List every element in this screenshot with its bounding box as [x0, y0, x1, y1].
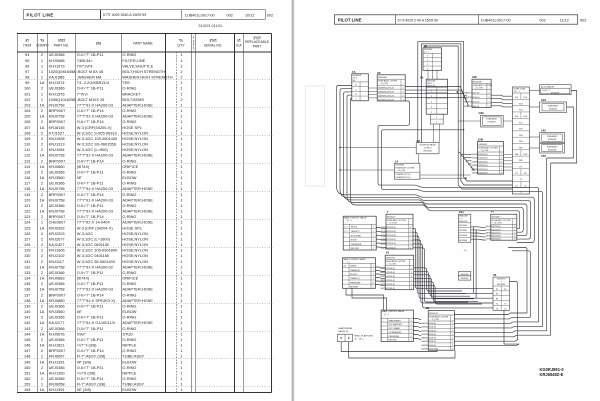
svg-text:14B: 14B — [478, 111, 484, 115]
svg-text:§¶: §¶ — [237, 39, 241, 43]
main control valve 1 (4 spool) — [343, 216, 376, 250]
svg-text:2: 2 — [41, 136, 43, 141]
wires hose 14 — [340, 169, 394, 171]
svg-text:110: 110 — [24, 142, 31, 147]
wire tube102 right riser — [547, 107, 574, 331]
svg-text:1: 1 — [41, 58, 43, 63]
svg-text:5ˈlˈ9 4029 3ˈ40-A 15/09 59: 5ˈlˈ9 4029 3ˈ40-A 15/09 59 — [398, 18, 438, 22]
svg-text:HOSE SPL: HOSE SPL — [122, 125, 142, 130]
svg-text:KRJ6058: KRJ6058 — [548, 139, 557, 141]
svg-text:§¶§¶: §¶§¶ — [209, 39, 216, 43]
svg-text:KRJ6076: KRJ6076 — [386, 258, 395, 260]
svg-text:UEJ0366: UEJ0366 — [49, 181, 65, 186]
svg-text:1: 1 — [180, 209, 182, 214]
svg-text:1: 1 — [41, 354, 43, 359]
svg-text:KHJ1391: KHJ1391 — [49, 359, 65, 364]
svg-text:117: 117 — [24, 181, 30, 186]
svg-text:Pb9: Pb9 — [519, 160, 523, 162]
svg-text:1: 1 — [373, 274, 374, 276]
svg-text:152: 152 — [24, 376, 31, 381]
svg-text:1: 1 — [180, 331, 182, 336]
svg-text:Pa6: Pa6 — [515, 116, 519, 118]
svg-text:2: 2 — [180, 75, 182, 80]
svg-text:1: 1 — [373, 270, 374, 272]
tube assy box 145 — [540, 129, 565, 143]
svg-text:ADAPTER;HOSE: ADAPTER;HOSE — [122, 186, 153, 191]
svg-text:W-3;1/2C: W-3;1/2C — [77, 231, 94, 236]
svg-text:1: 1 — [411, 332, 412, 334]
svg-text:VALVE 10: VALVE 10 — [338, 330, 349, 333]
svg-text:77"7"9;t-X 14-0404: 77"7"9;t-X 14-0404 — [77, 220, 111, 225]
svg-text:KRJ2034: KRJ2034 — [459, 240, 467, 242]
svg-text:12B: 12B — [478, 138, 484, 142]
hose group 12B box — [472, 138, 504, 175]
svg-text:T2: T2 — [504, 308, 506, 310]
svg-text:2: 2 — [41, 108, 43, 113]
svg-text:ˈ(2ˈˈˈ18ˈˈ)-ˈˈ: ˈ(2ˈˈˈ18ˈˈ)-ˈˈ — [354, 337, 365, 340]
svg-text:ˈˈˈˈˈ(ˈˈ): ˈˈˈˈˈ(ˈˈ) — [344, 261, 350, 264]
wires MCV2 to MCV3 — [346, 288, 384, 310]
wires into hose 12B — [458, 152, 471, 155]
svg-text:1: 1 — [373, 231, 374, 233]
svg-text:O-RING: O-RING — [122, 303, 136, 308]
svg-text:BRACKET: BRACKET — [459, 215, 469, 218]
svg-text:1: 1 — [180, 309, 182, 314]
hose group 9B box — [421, 306, 454, 350]
svg-text:2: 2 — [41, 192, 43, 197]
svg-text:O-Il>'7" 1B-P14: O-Il>'7" 1B-P14 — [77, 348, 105, 353]
svg-text:§: § — [193, 39, 195, 43]
svg-text:ˈ-ˈˈ2(ˈ) C/W: ˈ-ˈˈ2(ˈ) C/W — [479, 149, 489, 152]
svg-text:134: 134 — [24, 276, 31, 281]
wire loop outer around box 98 — [418, 42, 513, 181]
svg-text:113: 113 — [24, 158, 30, 163]
svg-text:106: 106 — [24, 119, 31, 124]
svg-text:11/12: 11/12 — [560, 19, 569, 23]
svg-text:154: 154 — [24, 387, 31, 392]
svg-text:1: 1 — [452, 323, 453, 325]
svg-text:§¶§¶: §¶§¶ — [58, 39, 65, 43]
wires box 98 to box 96 — [427, 70, 429, 79]
svg-text:4: 4 — [431, 107, 432, 109]
svg-text:O-Il>'7" 1B-P14: O-Il>'7" 1B-P14 — [77, 108, 105, 113]
svg-text:94: 94 — [25, 52, 30, 57]
svg-text:ˈˈ: ˈˈ — [382, 331, 384, 334]
svg-text:4: 4 — [411, 320, 412, 322]
svg-text:TUBE ASSY: TUBE ASSY — [546, 135, 558, 138]
svg-text:1: 1 — [180, 114, 182, 119]
parts table rows 94-154 — [24, 52, 183, 392]
svg-text:TRAVEL(R): TRAVEL(R) — [350, 269, 360, 272]
svg-text:1: 1 — [180, 303, 182, 308]
svg-text:Illl" (3/8): Illl" (3/8) — [77, 359, 92, 364]
svg-text:KHJ1974: KHJ1974 — [551, 93, 560, 95]
svg-text:129: 129 — [24, 248, 31, 253]
svg-text:145: 145 — [541, 129, 546, 133]
svg-text:O-RING: O-RING — [122, 315, 136, 320]
svg-text:126: 126 — [24, 231, 31, 236]
svg-text:51(KRJ2203-X): 51(KRJ2203-X) — [421, 349, 436, 351]
svg-text:1: 1 — [41, 75, 43, 80]
svg-text:47(KRJ2203-X): 47(KRJ2203-X) — [380, 276, 395, 278]
svg-text:STUD: STUD — [122, 331, 133, 336]
svg-text:7ˈ7ˈˈ: 7ˈ7ˈˈ — [459, 217, 464, 220]
svg-text:1: 1 — [452, 345, 453, 347]
svg-text:§¶§¶: §¶§¶ — [253, 36, 260, 40]
svg-text:KRJ2677: KRJ2677 — [49, 237, 65, 242]
svg-text:2: 2 — [41, 303, 43, 308]
svg-text:ˈ-ˈ ˈˈˈ: ˈ-ˈ ˈˈˈ — [344, 222, 349, 225]
svg-text:2: 2 — [41, 52, 43, 57]
svg-text:1: 1 — [180, 108, 182, 113]
svg-text:TEE: TEE — [122, 80, 130, 85]
svg-text:121: 121 — [24, 203, 31, 208]
svg-text:2: 2 — [41, 214, 43, 219]
svg-text:PILOT LINE: PILOT LINE — [338, 18, 362, 23]
svg-text:1: 1 — [180, 248, 182, 253]
svg-text:§: § — [193, 46, 195, 50]
svg-text:ˈˈ-ˈ: ˈˈ-ˈ — [382, 319, 385, 322]
svg-text:2: 2 — [41, 170, 43, 175]
svg-text:1: 1 — [180, 147, 182, 152]
svg-text:KRJ8145: KRJ8145 — [49, 125, 65, 130]
svg-text:1: 1 — [180, 170, 182, 175]
svg-text:W-3;1/2C 0601150: W-3;1/2C 0601150 — [77, 242, 110, 247]
wire bundle left risers to hose 47 — [337, 86, 535, 243]
svg-text:1: 1 — [41, 382, 43, 387]
hose group 10F box — [464, 75, 493, 108]
svg-text:RETURN: RETURN — [389, 340, 398, 342]
svg-text:1: 1 — [41, 91, 43, 96]
svg-text:2: 2 — [41, 248, 43, 253]
svg-text:1020Q0816458: 1020Q0816458 — [49, 69, 76, 74]
svg-text:ˈ-ˈˈ2(ˈ) C/W: ˈ-ˈˈ2(ˈ) C/W — [387, 222, 397, 225]
svg-text:ˈˈˈlˈˈˈ: ˈˈˈlˈˈˈ — [499, 280, 504, 283]
svg-text:ˈˈˈ: ˈˈˈ — [344, 277, 346, 280]
svg-text:1A: 1A — [40, 320, 45, 325]
svg-text:135: 135 — [24, 281, 31, 286]
svg-text:1: 1 — [355, 89, 356, 91]
svg-text:MAIN CONTROL VALVE: MAIN CONTROL VALVE — [344, 216, 367, 219]
svg-text:68(KRJ2203-X): 68(KRJ2203-X) — [486, 232, 501, 234]
svg-text:1A: 1A — [40, 209, 45, 214]
svg-text:ˈˈˈ: ˈˈˈ — [344, 273, 346, 276]
valve block 96 — [420, 75, 448, 114]
svg-text:DJB401L0017-00: DJB401L0017-00 — [185, 13, 215, 17]
svg-text:2: 2 — [41, 86, 43, 91]
svg-text:KRJ3560: KRJ3560 — [49, 309, 66, 314]
svg-text:ROT/CRWD: ROT/CRWD — [351, 235, 362, 237]
svg-text:148: 148 — [24, 354, 31, 359]
svg-text:ADAPTER;HOSE: ADAPTER;HOSE — [122, 298, 153, 303]
wire loop middle around box 98 — [421, 44, 512, 185]
svg-text:2: 2 — [41, 253, 43, 258]
svg-text:KHJ1821: KHJ1821 — [49, 343, 65, 348]
svg-text:HOSE;NYLON: HOSE;NYLON — [122, 142, 148, 147]
svg-text:SWING: SWING — [350, 266, 357, 268]
svg-text:TUBE ASSY: TUBE ASSY — [486, 118, 498, 121]
svg-text:1: 1 — [180, 242, 182, 247]
svg-text:KRJ6062: KRJ6062 — [479, 144, 488, 146]
svg-text:UEJ0366: UEJ0366 — [49, 337, 65, 342]
svg-text:Q'TY: Q'TY — [177, 43, 185, 47]
svg-text:HOSE SPL: HOSE SPL — [122, 225, 142, 230]
svg-text:10/12: 10/12 — [245, 13, 255, 17]
svg-text:O-Il>'7" 1B-P11: O-Il>'7" 1B-P11 — [77, 270, 104, 275]
svg-text:104: 104 — [24, 108, 31, 113]
svg-text:ELBOW: ELBOW — [122, 359, 136, 364]
svg-text:95: 95 — [25, 58, 29, 63]
svg-text:2: 2 — [41, 231, 43, 236]
svg-text:REPLACEABLE: REPLACEABLE — [245, 40, 270, 44]
svg-text:KRJ0880: KRJ0880 — [49, 298, 66, 303]
svg-text:BRP0007: BRP0007 — [49, 214, 66, 219]
svg-text:2: 2 — [41, 326, 43, 331]
svg-text:1036Q1016258: 1036Q1016258 — [49, 97, 76, 102]
svg-text:W-3;1/2C SS-0601556: W-3;1/2C SS-0601556 — [77, 142, 116, 147]
svg-text:O-RING: O-RING — [122, 203, 136, 208]
svg-text:ADAPTER;HOSE: ADAPTER;HOSE — [122, 197, 153, 202]
svg-text:1: 1 — [180, 125, 182, 130]
svg-text:O-Il>'7" 1B-P11: O-Il>'7" 1B-P11 — [77, 52, 104, 57]
wires MCV2 to hose 61 — [376, 266, 386, 269]
svg-text:O-RING: O-RING — [122, 108, 136, 113]
svg-text:ITEM: ITEM — [23, 43, 31, 47]
tube assy box 102 — [540, 98, 567, 112]
svg-text:1: 1 — [514, 236, 515, 238]
svg-text:77"7"9;t-X SPE2K3 X): 77"7"9;t-X SPE2K3 X) — [77, 298, 116, 303]
wires MCV1 to hose 7 — [376, 227, 386, 230]
svg-text:1: 1 — [180, 359, 182, 364]
svg-text:1A: 1A — [40, 298, 45, 303]
svg-text:ADAPTER;HOSE: ADAPTER;HOSE — [122, 114, 153, 119]
svg-text:111(KNJ1064-X): 111(KNJ1064-X) — [464, 106, 480, 108]
svg-text:139: 139 — [24, 303, 31, 308]
svg-text:CHE0607: CHE0607 — [49, 220, 66, 225]
svg-text:69(KRJ2203-X): 69(KRJ2203-X) — [486, 236, 501, 238]
svg-text:HOSE;NYLON: HOSE;NYLON — [122, 130, 148, 135]
svg-text:1: 1 — [411, 268, 412, 270]
svg-text:153: 153 — [24, 382, 31, 387]
svg-text:1: 1 — [411, 272, 412, 274]
svg-text:1: 1 — [180, 192, 182, 197]
svg-text:BOLT;HIGH STRENGTH: BOLT;HIGH STRENGTH — [122, 69, 165, 74]
wires hose 95 to 10F — [405, 87, 467, 96]
svg-text:150: 150 — [24, 365, 31, 370]
svg-text:Pa2: Pa2 — [523, 97, 527, 99]
svg-text:144: 144 — [24, 331, 31, 336]
svg-text:KRJ3001: KRJ3001 — [461, 278, 469, 280]
svg-text:002: 002 — [227, 13, 233, 17]
svg-text:47: 47 — [491, 210, 495, 214]
svg-text:2: 2 — [41, 365, 43, 370]
svg-text:1: 1 — [41, 63, 43, 68]
svg-text:120: 120 — [24, 197, 31, 202]
svg-text:Illl": Illl" — [77, 309, 83, 314]
svg-text:141: 141 — [24, 315, 31, 320]
svg-text:1: 1 — [403, 95, 404, 97]
svg-text:ELBOW: ELBOW — [122, 175, 136, 180]
svg-text:ELBOW: ELBOW — [122, 309, 136, 314]
svg-text:1: 1 — [410, 227, 411, 229]
svg-text:1: 1 — [180, 365, 182, 370]
svg-text:KRJ6057: KRJ6057 — [488, 121, 497, 123]
svg-text:1: 1 — [489, 106, 490, 108]
svg-text:Pa1: Pa1 — [515, 97, 519, 99]
svg-text:KRJ2033: KRJ2033 — [459, 235, 467, 237]
svg-text:KAJ2177: KAJ2177 — [49, 320, 65, 325]
svg-text:106(KRJ2203-X): 106(KRJ2203-X) — [378, 91, 394, 93]
svg-text:SERIAL NO.: SERIAL NO. — [204, 43, 222, 47]
svg-text:O-RING: O-RING — [122, 170, 136, 175]
svg-text:W-3;1/2C 105-0601400: W-3;1/2C 105-0601400 — [77, 136, 118, 141]
svg-text:O-RING: O-RING — [122, 52, 136, 57]
control valve port column — [512, 87, 529, 194]
svg-text:TUBE ASSY: TUBE ASSY — [547, 104, 559, 107]
svg-text:O-RING: O-RING — [122, 158, 136, 163]
svg-text:ˈ-ˈˈ2(ˈ) C/W: ˈ-ˈˈ2(ˈ) C/W — [473, 87, 483, 90]
svg-text:1: 1 — [180, 348, 182, 353]
wire tee right riser — [551, 91, 577, 336]
svg-text:149: 149 — [24, 359, 31, 364]
svg-text:108: 108 — [24, 130, 31, 135]
svg-text:1: 1 — [501, 158, 502, 160]
wires hose 61 right bundle — [414, 268, 462, 291]
svg-text:1: 1 — [411, 324, 412, 326]
svg-text:98: 98 — [25, 75, 29, 80]
svg-text:2: 2 — [427, 68, 428, 70]
svg-text:COMPO: COMPO — [36, 43, 49, 47]
svg-text:ELBOW: ELBOW — [122, 387, 136, 392]
svg-text:KNJ1117: KNJ1117 — [49, 259, 64, 264]
svg-text:(OTHERWISE): (OTHERWISE) — [389, 332, 402, 334]
svg-text:BRP0007: BRP0007 — [49, 119, 66, 124]
svg-text:KHJ1973: KHJ1973 — [49, 63, 65, 68]
svg-text:T1: T1 — [520, 179, 523, 181]
right page: pilot line piping diagram — [335, 15, 587, 377]
svg-text:44(KRJ2203-X): 44(KRJ2203-X) — [421, 323, 436, 325]
svg-text:TUBE;ASSY: TUBE;ASSY — [122, 354, 144, 359]
svg-text:77"7"9;t-X HA200-03: 77"7"9;t-X HA200-03 — [77, 287, 113, 292]
svg-text:W-3;1/2C 105-0901800: W-3;1/2C 105-0901800 — [77, 248, 118, 253]
svg-text:Pb3: Pb3 — [519, 141, 523, 143]
svg-text:KHJ0568: KHJ0568 — [49, 58, 65, 63]
svg-text:1: 1 — [180, 320, 182, 325]
svg-text:UEJ0366: UEJ0366 — [49, 86, 65, 91]
svg-text:103: 103 — [24, 103, 31, 108]
svg-text:74ˈ9(54ˈ): 74ˈ9(54ˈ) — [423, 146, 432, 149]
svg-text:VALVE;SHUTTLE: VALVE;SHUTTLE — [122, 63, 153, 68]
left page title block — [23, 10, 265, 20]
svg-text:§¶§: §¶§ — [96, 41, 102, 45]
svg-text:KHJ1973: KHJ1973 — [497, 279, 506, 281]
wires 10F to valve ports — [491, 95, 512, 96]
svg-text:1A: 1A — [40, 359, 45, 364]
tube assy box 150 — [540, 143, 565, 157]
svg-text:(tIl74X): (tIl74X) — [77, 276, 90, 281]
svg-text:1: 1 — [501, 172, 502, 174]
svg-text:1: 1 — [410, 243, 411, 245]
svg-text:KNJ0758: KNJ0758 — [49, 186, 65, 191]
svg-text:O-Il>'7" 1B-P14: O-Il>'7" 1B-P14 — [77, 119, 105, 124]
svg-text:O-RING: O-RING — [122, 281, 136, 286]
svg-text:1: 1 — [410, 231, 411, 233]
svg-text:1: 1 — [373, 240, 374, 242]
svg-text:1: 1 — [180, 326, 182, 331]
svg-text:002: 002 — [580, 19, 586, 23]
svg-text:7-ˈ1: 7-ˈ1 — [344, 226, 347, 229]
svg-text:1A: 1A — [40, 80, 45, 85]
svg-text:A: A — [355, 84, 357, 87]
svg-text:KNJ0758: KNJ0758 — [49, 103, 65, 108]
svg-text:1: 1 — [180, 158, 182, 163]
svg-text:1: 1 — [180, 103, 182, 108]
svg-text:106(KRJ2203-X): 106(KRJ2203-X) — [378, 95, 394, 97]
svg-text:KRJ2046: KRJ2046 — [473, 82, 482, 84]
svg-text:2: 2 — [41, 237, 43, 242]
svg-text:95: 95 — [377, 71, 381, 75]
svg-text:ˈˈˈˈ: ˈˈˈˈ — [463, 246, 466, 249]
svg-text:1: 1 — [489, 92, 490, 94]
svg-text:131: 131 — [24, 259, 31, 264]
svg-text:Fl-7";ASSY (3/8): Fl-7";ASSY (3/8) — [77, 354, 106, 359]
svg-text:142: 142 — [24, 320, 31, 325]
svg-text:107(KRJ2203-X): 107(KRJ2203-X) — [378, 99, 394, 101]
svg-text:PART NO.: PART NO. — [54, 43, 69, 47]
wires shattering valve — [341, 342, 437, 352]
svg-text:1: 1 — [410, 235, 411, 237]
svg-text:KNJ0758: KNJ0758 — [49, 114, 65, 119]
svg-text:TELESCO: TELESCO — [351, 231, 360, 233]
svg-text:P1: P1 — [504, 289, 506, 291]
parts table column headings — [23, 36, 269, 51]
svg-text:1: 1 — [180, 264, 182, 269]
svg-text:ˈˈ ˈˈˈ: ˈˈ ˈˈˈ — [382, 315, 386, 318]
svg-text:UEJ0366: UEJ0366 — [49, 281, 65, 286]
svg-text:110(KNJ1313-X): 110(KNJ1313-X) — [464, 101, 480, 103]
svg-text:1: 1 — [501, 154, 502, 156]
svg-text:1: 1 — [180, 376, 182, 381]
svg-text:132: 132 — [24, 264, 31, 269]
svg-text:3: 3 — [431, 101, 432, 103]
svg-text:126(KRJ2203-X): 126(KRJ2203-X) — [472, 154, 488, 156]
svg-text:1: 1 — [180, 136, 182, 141]
svg-text:1: 1 — [180, 203, 182, 208]
svg-text:KNJ1508: KNJ1508 — [49, 136, 65, 141]
svg-text:1A: 1A — [40, 153, 45, 158]
svg-text:X9vl": X9vl" — [77, 331, 87, 336]
svg-text:KRJ6549Z-E: KRJ6549Z-E — [540, 372, 564, 377]
svg-text:2: 2 — [180, 69, 182, 74]
svg-text:KG0RJ891-0: KG0RJ891-0 — [540, 367, 565, 372]
svg-text:ˈ-ˈˈ2(ˈ) C/W: ˈ-ˈˈ2(ˈ) C/W — [492, 222, 502, 225]
svg-text:HOSE;NYLON: HOSE;NYLON — [122, 237, 148, 242]
svg-text:100: 100 — [24, 86, 31, 91]
svg-text:101: 101 — [24, 91, 31, 96]
svg-text:O-Il>'7" 1B-P11: O-Il>'7" 1B-P11 — [77, 170, 104, 175]
svg-text:T1: T1 — [496, 304, 498, 306]
svg-text:UEJ0366: UEJ0366 — [49, 170, 65, 175]
svg-text:138: 138 — [24, 298, 31, 303]
svg-text:W-3 (CRF(34200-X): W-3 (CRF(34200-X) — [77, 125, 112, 130]
svg-text:UEJ0366: UEJ0366 — [49, 203, 65, 208]
svg-text:BRACKET: BRACKET — [122, 91, 141, 96]
svg-text:1: 1 — [501, 165, 502, 167]
svg-text:2: 2 — [41, 142, 43, 147]
svg-text:RETURN: RETURN — [350, 287, 359, 289]
svg-text:ˈˈˈ: ˈˈˈ — [344, 269, 346, 272]
svg-text:3: 3 — [427, 56, 428, 58]
